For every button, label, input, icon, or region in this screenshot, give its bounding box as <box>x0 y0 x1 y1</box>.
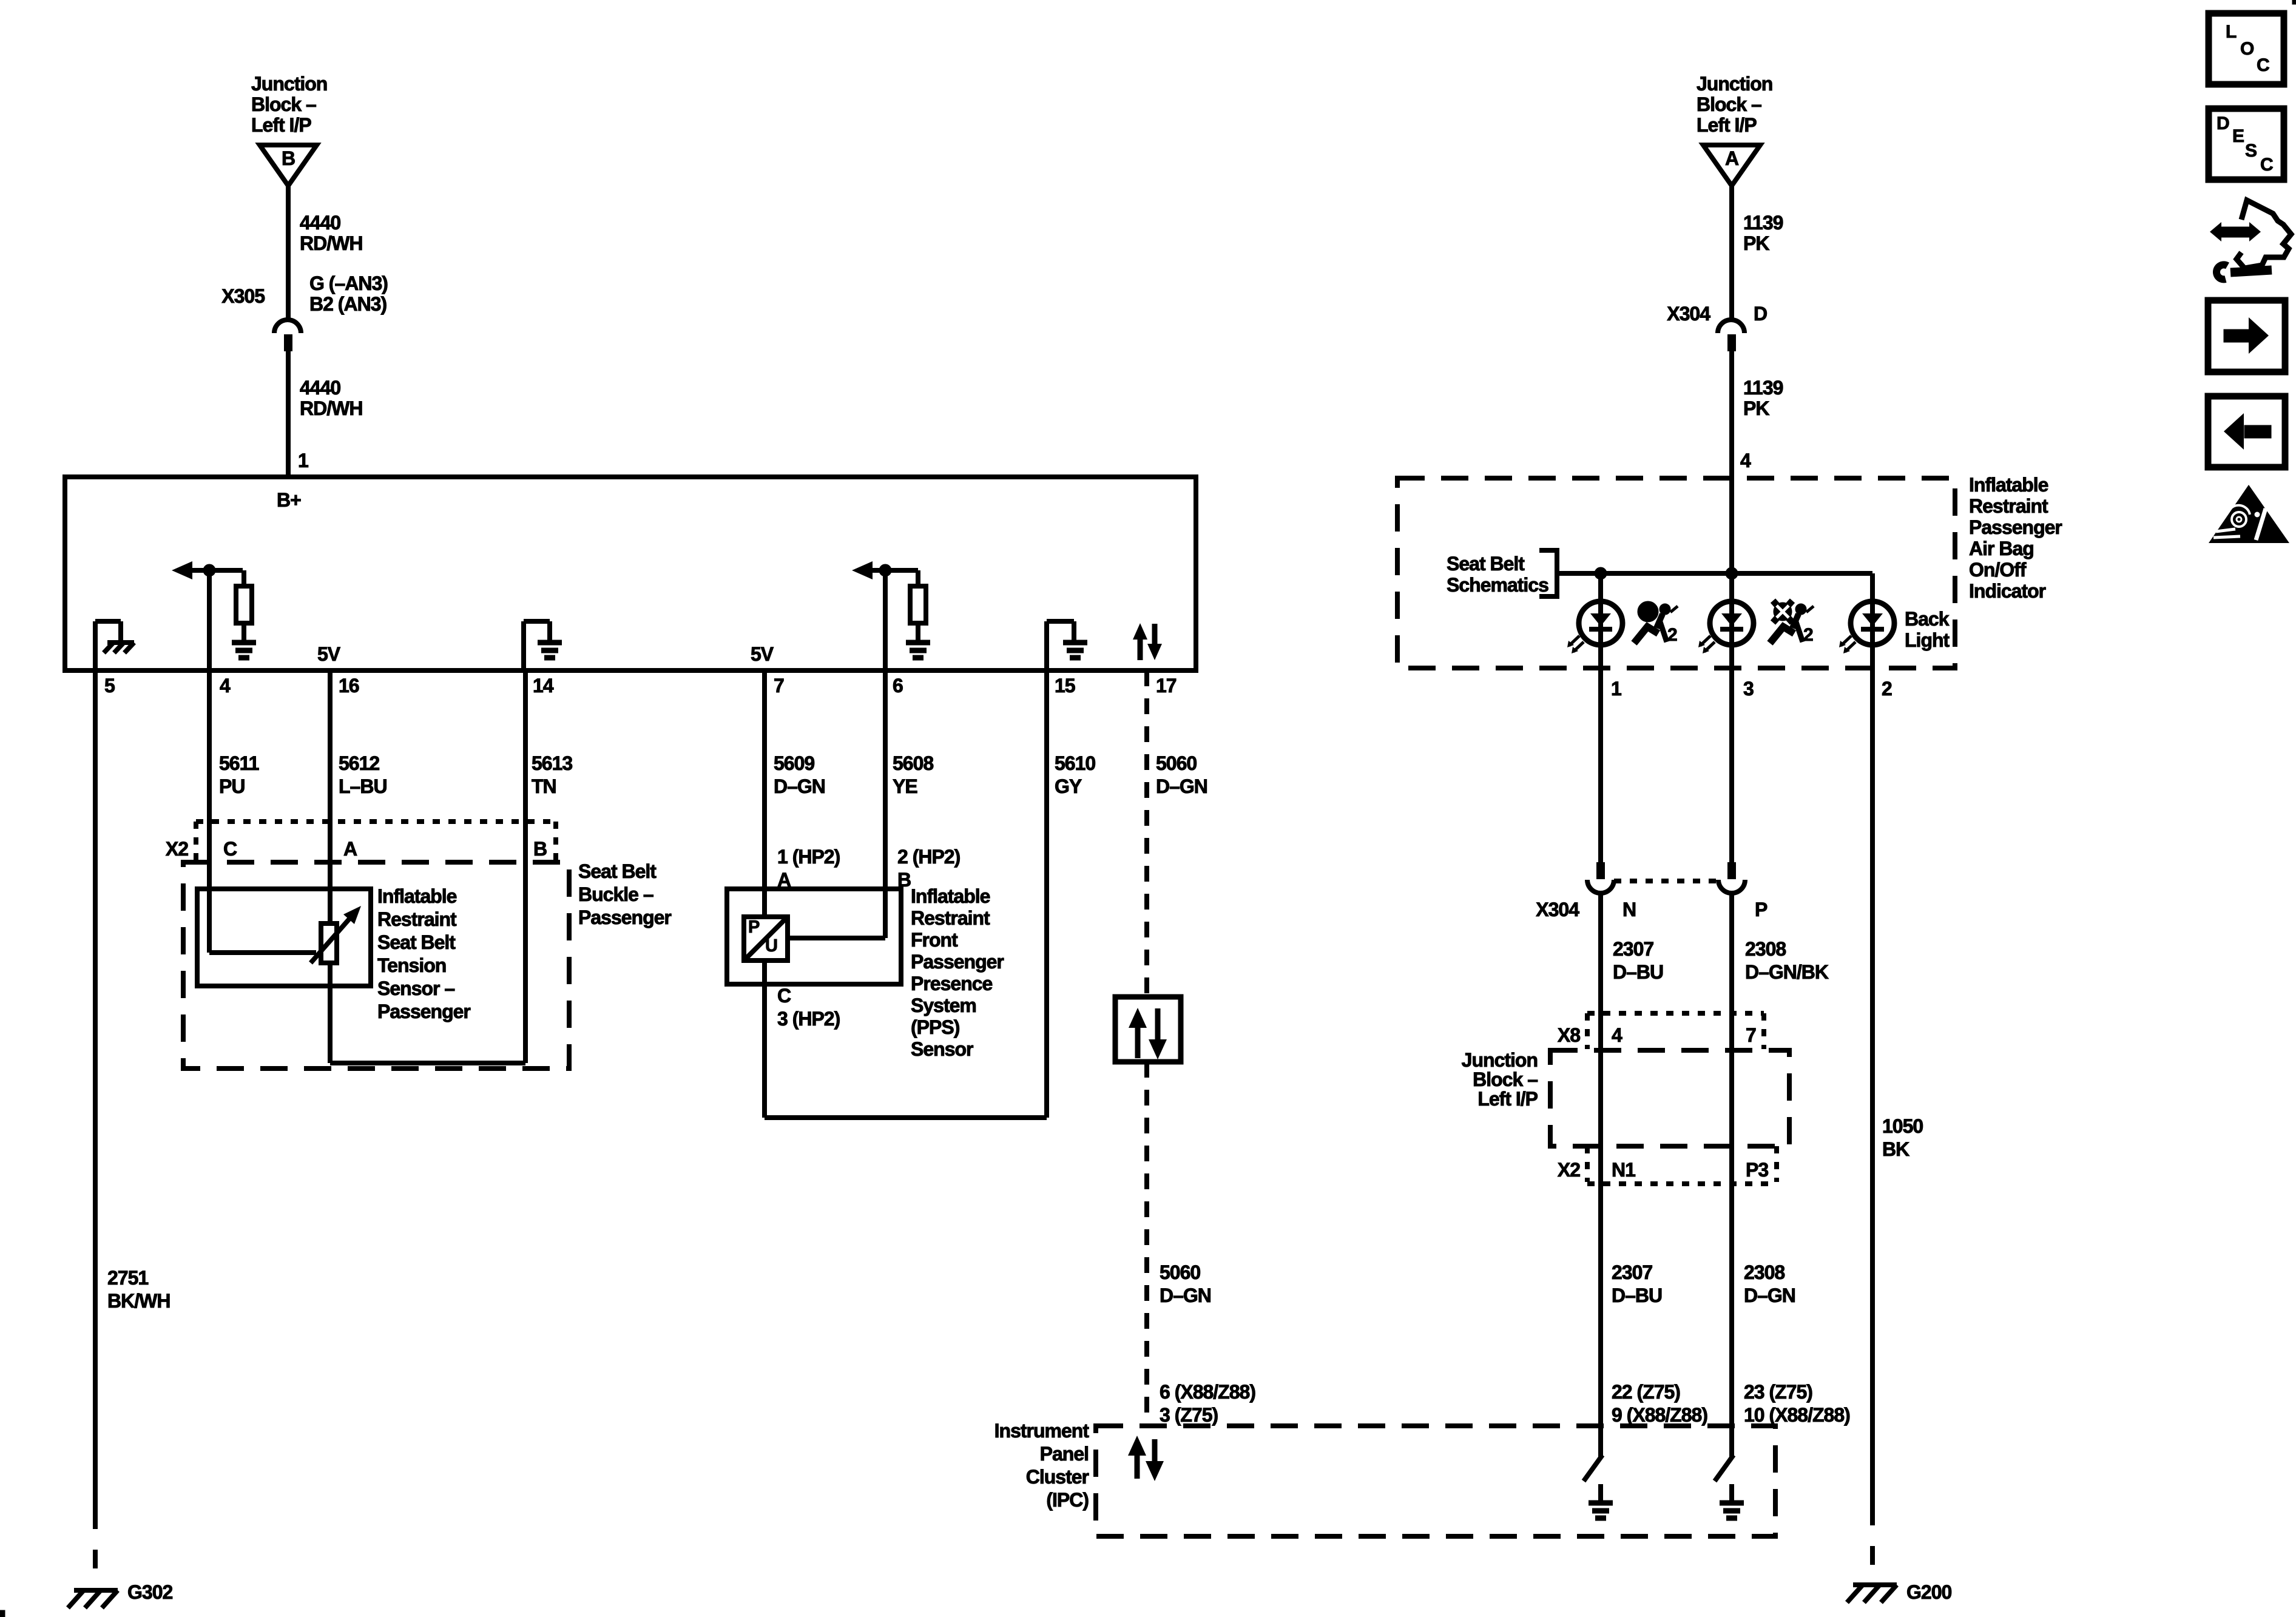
svg-text:D–GN: D–GN <box>774 775 825 797</box>
svg-text:Seat Belt: Seat Belt <box>377 931 456 953</box>
svg-text:RD/WH: RD/WH <box>300 397 362 419</box>
svg-text:2: 2 <box>1667 625 1677 645</box>
svg-text:G (–AN3): G (–AN3) <box>309 272 388 294</box>
svg-text:X304: X304 <box>1667 303 1710 325</box>
svg-text:Left I/P: Left I/P <box>251 114 311 136</box>
svg-text:C: C <box>2257 55 2269 75</box>
svg-text:2 (HP2): 2 (HP2) <box>897 846 961 868</box>
svg-text:Panel: Panel <box>1040 1443 1089 1465</box>
svg-text:2308: 2308 <box>1744 1261 1784 1283</box>
svg-text:D–BU: D–BU <box>1612 1284 1662 1306</box>
svg-text:Front: Front <box>911 929 958 951</box>
svg-text:7: 7 <box>774 675 784 697</box>
svg-text:Junction: Junction <box>1462 1049 1538 1071</box>
svg-text:L: L <box>2226 22 2237 42</box>
svg-text:4: 4 <box>1740 450 1751 471</box>
svg-text:YE: YE <box>893 775 917 797</box>
svg-text:P: P <box>748 917 760 937</box>
svg-text:3 (Z75): 3 (Z75) <box>1160 1404 1218 1426</box>
svg-text:14: 14 <box>533 675 554 697</box>
svg-text:B+: B+ <box>277 489 301 511</box>
svg-text:D: D <box>2217 113 2229 133</box>
svg-text:5608: 5608 <box>893 752 933 774</box>
svg-text:Passenger: Passenger <box>578 906 671 928</box>
svg-text:5060: 5060 <box>1160 1261 1200 1283</box>
svg-text:U: U <box>765 936 777 956</box>
svg-text:PK: PK <box>1743 397 1769 419</box>
svg-text:X305: X305 <box>221 285 265 307</box>
svg-text:Restraint: Restraint <box>377 908 457 930</box>
svg-text:5609: 5609 <box>774 752 814 774</box>
svg-text:C: C <box>777 985 791 1007</box>
svg-text:5610: 5610 <box>1055 752 1095 774</box>
svg-text:BK/WH: BK/WH <box>107 1290 170 1312</box>
svg-text:Passenger: Passenger <box>911 951 1004 973</box>
svg-text:1139: 1139 <box>1743 212 1783 234</box>
svg-text:6: 6 <box>893 675 903 697</box>
svg-text:(PPS): (PPS) <box>911 1016 960 1038</box>
svg-text:B: B <box>533 838 547 860</box>
svg-text:G200: G200 <box>1906 1581 1951 1603</box>
svg-text:A: A <box>343 838 357 860</box>
svg-text:A: A <box>1725 147 1739 169</box>
svg-text:D–GN: D–GN <box>1744 1284 1795 1306</box>
svg-text:Passenger: Passenger <box>1969 516 2062 538</box>
svg-text:Inflatable: Inflatable <box>911 885 990 907</box>
svg-text:PU: PU <box>219 775 245 797</box>
svg-text:Sensor: Sensor <box>911 1038 973 1060</box>
svg-text:Restraint: Restraint <box>1969 495 2048 517</box>
svg-text:Buckle –: Buckle – <box>578 883 653 905</box>
svg-text:PK: PK <box>1743 232 1769 254</box>
svg-text:C: C <box>2260 155 2273 175</box>
svg-text:10 (X88/Z88): 10 (X88/Z88) <box>1744 1404 1850 1426</box>
svg-text:16: 16 <box>339 675 359 697</box>
svg-text:5612: 5612 <box>339 752 379 774</box>
svg-text:Schematics: Schematics <box>1447 574 1548 596</box>
svg-text:2308: 2308 <box>1745 938 1786 960</box>
svg-text:1139: 1139 <box>1743 377 1783 399</box>
svg-text:G302: G302 <box>127 1581 172 1603</box>
svg-text:Inflatable: Inflatable <box>1969 474 2048 496</box>
svg-text:L–BU: L–BU <box>339 775 387 797</box>
svg-text:22 (Z75): 22 (Z75) <box>1612 1381 1680 1403</box>
svg-text:Tension: Tension <box>377 954 446 976</box>
svg-text:D–GN: D–GN <box>1160 1284 1211 1306</box>
svg-text:D–GN: D–GN <box>1156 775 1207 797</box>
svg-text:X8: X8 <box>1558 1024 1580 1046</box>
svg-text:9 (X88/Z88): 9 (X88/Z88) <box>1612 1404 1707 1426</box>
svg-text:D–GN/BK: D–GN/BK <box>1745 961 1829 983</box>
svg-text:Left I/P: Left I/P <box>1697 114 1757 136</box>
svg-text:D: D <box>1754 303 1767 325</box>
svg-text:B2 (AN3): B2 (AN3) <box>309 293 387 315</box>
svg-text:1 (HP2): 1 (HP2) <box>777 846 840 868</box>
svg-text:(IPC): (IPC) <box>1046 1489 1089 1511</box>
svg-text:Presence: Presence <box>911 973 993 994</box>
svg-text:5060: 5060 <box>1156 752 1197 774</box>
svg-text:4: 4 <box>1612 1024 1622 1046</box>
svg-text:3 (HP2): 3 (HP2) <box>777 1008 840 1030</box>
svg-text:X2: X2 <box>1558 1159 1580 1181</box>
svg-text:Inflatable: Inflatable <box>377 885 457 907</box>
svg-text:Block –: Block – <box>1473 1068 1538 1090</box>
svg-text:Seat Belt: Seat Belt <box>578 860 657 882</box>
svg-text:5611: 5611 <box>219 752 259 774</box>
svg-text:Block –: Block – <box>1697 93 1761 115</box>
svg-text:Seat Belt: Seat Belt <box>1447 553 1525 575</box>
svg-text:Air Bag: Air Bag <box>1969 538 2034 559</box>
svg-text:Restraint: Restraint <box>911 907 990 929</box>
svg-text:2307: 2307 <box>1613 938 1653 960</box>
svg-text:X304: X304 <box>1536 899 1579 920</box>
svg-text:2751: 2751 <box>107 1267 148 1289</box>
svg-text:GY: GY <box>1055 775 1082 797</box>
svg-text:On/Off: On/Off <box>1969 559 2027 581</box>
svg-text:A: A <box>777 869 791 891</box>
svg-text:Left I/P: Left I/P <box>1477 1088 1538 1110</box>
svg-text:Passenger: Passenger <box>377 1001 470 1022</box>
svg-text:4440: 4440 <box>300 377 340 399</box>
svg-text:1: 1 <box>298 450 308 471</box>
svg-text:1050: 1050 <box>1882 1115 1923 1137</box>
svg-text:N1: N1 <box>1612 1159 1635 1181</box>
svg-text:Junction: Junction <box>251 73 327 95</box>
svg-text:2: 2 <box>1803 625 1813 645</box>
svg-text:C: C <box>223 838 237 860</box>
svg-text:TN: TN <box>532 775 556 797</box>
svg-text:E: E <box>2232 126 2244 146</box>
svg-text:6 (X88/Z88): 6 (X88/Z88) <box>1160 1381 1255 1403</box>
svg-text:Instrument: Instrument <box>994 1420 1090 1442</box>
svg-text:4440: 4440 <box>300 212 340 234</box>
svg-text:1: 1 <box>1611 678 1621 700</box>
svg-text:O: O <box>2240 39 2254 59</box>
svg-text:5613: 5613 <box>532 752 572 774</box>
svg-text:Back: Back <box>1905 608 1950 630</box>
svg-text:B: B <box>897 869 911 891</box>
svg-text:3: 3 <box>1743 678 1754 700</box>
svg-text:P: P <box>1755 899 1768 920</box>
svg-text:Block –: Block – <box>251 93 316 115</box>
svg-text:Junction: Junction <box>1697 73 1772 95</box>
svg-text:7: 7 <box>1746 1024 1756 1046</box>
svg-text:N: N <box>1622 899 1636 920</box>
svg-text:2307: 2307 <box>1612 1261 1652 1283</box>
svg-text:System: System <box>911 994 976 1016</box>
svg-text:Light: Light <box>1905 629 1950 651</box>
svg-text:2: 2 <box>1882 678 1892 700</box>
svg-text:Indicator: Indicator <box>1969 580 2046 602</box>
svg-text:Cluster: Cluster <box>1026 1466 1089 1488</box>
svg-text:B: B <box>282 147 295 169</box>
svg-text:5V: 5V <box>751 643 774 665</box>
svg-text:5V: 5V <box>317 643 341 665</box>
svg-text:X2: X2 <box>166 838 188 860</box>
svg-text:RD/WH: RD/WH <box>300 232 362 254</box>
svg-text:P3: P3 <box>1746 1159 1768 1181</box>
svg-text:S: S <box>2245 141 2257 161</box>
svg-text:BK: BK <box>1882 1138 1909 1160</box>
svg-text:4: 4 <box>220 675 231 697</box>
svg-text:15: 15 <box>1055 675 1075 697</box>
svg-text:D–BU: D–BU <box>1613 961 1663 983</box>
svg-text:Sensor –: Sensor – <box>377 977 454 999</box>
svg-text:17: 17 <box>1156 675 1177 697</box>
svg-text:23 (Z75): 23 (Z75) <box>1744 1381 1812 1403</box>
svg-text:5: 5 <box>104 675 115 697</box>
